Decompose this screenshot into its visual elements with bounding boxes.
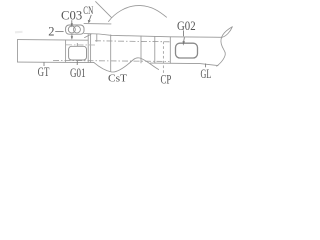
wire divider x=65.5 — [65, 40, 67, 62]
faint scan smudge — [15, 31, 23, 34]
wire dash-dot center line lower — [53, 60, 170, 61]
capacitor C03 circle left — [68, 26, 75, 33]
wire CP dashed leader — [162, 42, 164, 74]
svg-text:GT: GT — [38, 65, 50, 79]
component G01 box — [69, 46, 87, 60]
node 2 leader dash — [55, 31, 63, 33]
wire divider x=170.3 (right box left edge) — [169, 37, 171, 63]
component G02 box — [176, 43, 198, 58]
wire right break S-curve — [217, 27, 233, 66]
wire G01 bottom leader — [76, 60, 78, 65]
wire GL leader tick — [205, 64, 207, 68]
wire right wall outer — [90, 34, 92, 63]
wire CN leader arrow — [89, 15, 91, 20]
wire dash-dot segment left — [66, 44, 95, 46]
wire GT leader tick — [43, 62, 45, 66]
wire divider x=154.8 — [154, 36, 156, 63]
wire C03 leader arrow — [71, 20, 73, 23]
wire G01 top tick — [76, 43, 78, 46]
wire top break S-curve — [109, 6, 167, 22]
wire right wall inner — [87, 34, 89, 63]
wire dash-dot center line upper — [95, 41, 170, 42]
svg-text:CN: CN — [83, 5, 93, 17]
wire bottom break wave — [94, 58, 159, 72]
wire top line A — [84, 23, 111, 25]
wire bottom edge right section — [151, 63, 219, 66]
svg-text:2: 2 — [48, 24, 54, 38]
svg-text:CsT: CsT — [108, 72, 127, 84]
svg-text:CP: CP — [161, 72, 172, 87]
wire G02 tick — [183, 30, 185, 36]
wire top break diagonal — [96, 2, 112, 18]
wire left rect left edge — [17, 40, 19, 63]
capacitor C03 box — [66, 25, 84, 34]
wire left rect top edge — [18, 39, 89, 42]
wire band top edge B — [84, 27, 232, 38]
wire vertical x=97 — [96, 34, 98, 41]
wire diagonal brace — [85, 34, 92, 37]
wire divider x=110.8 — [110, 35, 112, 71]
wire left rect bottom edge — [18, 61, 95, 64]
svg-text:GL: GL — [201, 66, 212, 81]
svg-text:G02: G02 — [177, 19, 196, 33]
wire arrow below C03 box — [71, 35, 73, 37]
svg-text:C03: C03 — [61, 9, 82, 23]
wire G02 arrow into box — [183, 37, 186, 41]
wire divider x=141 — [140, 36, 142, 63]
capacitor C03 circle right — [73, 26, 80, 33]
svg-text:G01: G01 — [70, 65, 86, 80]
